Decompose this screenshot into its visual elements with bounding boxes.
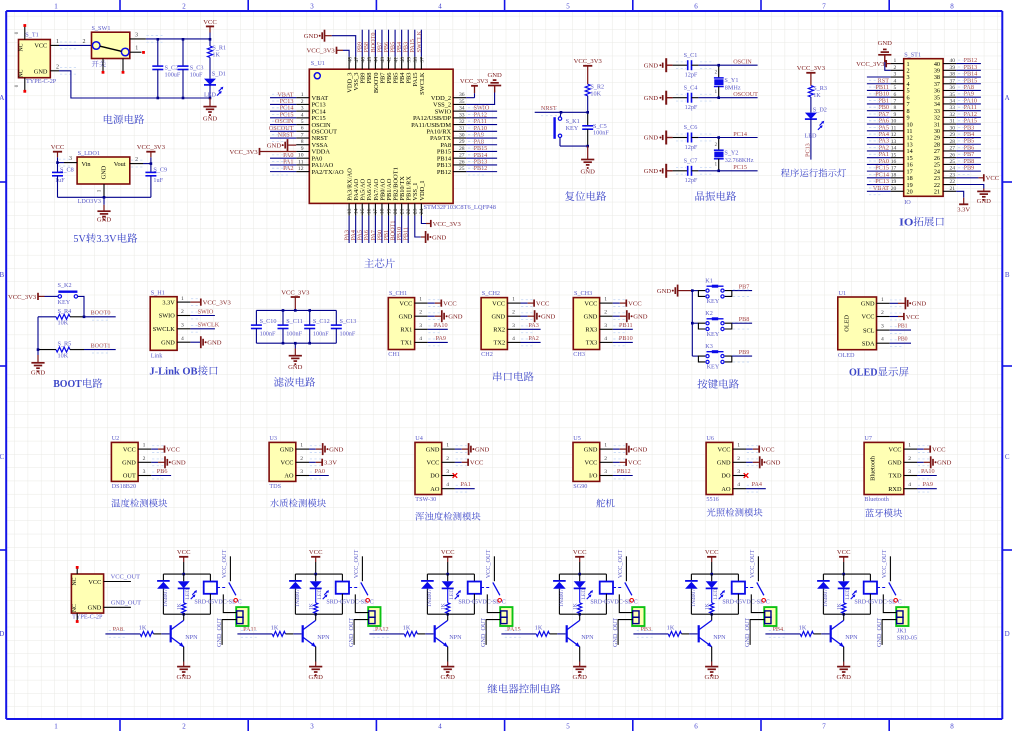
svg-text:4: 4 bbox=[604, 336, 607, 342]
svg-text:VCC: VCC bbox=[399, 300, 412, 307]
svg-text:OLED: OLED bbox=[844, 314, 851, 331]
svg-text:40: 40 bbox=[400, 57, 406, 63]
relay LED PA15 bbox=[574, 574, 593, 600]
svg-text:31: 31 bbox=[459, 126, 465, 132]
svg-text:VCC: VCC bbox=[281, 460, 294, 467]
LDO GND bbox=[97, 197, 112, 223]
svg-text:29: 29 bbox=[950, 132, 956, 138]
svg-text:35: 35 bbox=[950, 92, 956, 98]
U1 pin 47 VSS_3 bbox=[353, 57, 360, 91]
svg-text:VCC: VCC bbox=[932, 447, 946, 454]
svg-text:A: A bbox=[1005, 94, 1010, 102]
relay LED PB4 bbox=[838, 574, 857, 600]
svg-text:2: 2 bbox=[604, 456, 607, 462]
ST1 pin 35 right bbox=[934, 91, 981, 102]
svg-text:S_C6: S_C6 bbox=[684, 124, 698, 131]
svg-text:GND_OUT: GND_OUT bbox=[876, 618, 883, 647]
svg-text:GND: GND bbox=[203, 115, 218, 122]
T1 pin 2 wire GND rail bbox=[50, 65, 210, 99]
svg-text:37: 37 bbox=[950, 78, 956, 84]
svg-text:1K: 1K bbox=[573, 603, 579, 610]
svg-text:SWCLK: SWCLK bbox=[153, 326, 175, 333]
svg-text:SRD-05VDC-SL-C: SRD-05VDC-SL-C bbox=[590, 599, 637, 605]
svg-text:VCC: VCC bbox=[166, 447, 180, 454]
U1 pin 27 PB14 bbox=[437, 152, 497, 163]
svg-text:VCC: VCC bbox=[309, 549, 323, 556]
svg-text:PB12: PB12 bbox=[617, 468, 631, 475]
LED S_D1 bbox=[204, 71, 226, 99]
VCC_3V3 power BOOT bbox=[8, 293, 58, 301]
svg-text:5V: 5V bbox=[73, 234, 86, 245]
svg-text:S_CH1: S_CH1 bbox=[389, 290, 407, 297]
svg-text:34: 34 bbox=[459, 106, 465, 112]
capacitor S_C10 100nF bbox=[251, 310, 277, 343]
LDO S_LDO1 bbox=[77, 150, 130, 205]
svg-text:8: 8 bbox=[950, 723, 954, 731]
svg-text:S_C11: S_C11 bbox=[286, 318, 303, 325]
LDO pin 3 wire bbox=[58, 156, 78, 166]
svg-text:10uF: 10uF bbox=[190, 72, 203, 79]
svg-text:1K: 1K bbox=[309, 603, 315, 610]
relay resistor 1K PA8 bbox=[177, 588, 186, 614]
transistor NPN PA8 bbox=[171, 614, 198, 661]
svg-text:7: 7 bbox=[301, 132, 304, 138]
ST1 pin 2 left bbox=[891, 65, 910, 75]
U1 pin 5 OSCIN bbox=[270, 118, 331, 129]
svg-text:GND: GND bbox=[573, 674, 588, 681]
svg-text:39: 39 bbox=[406, 57, 412, 63]
ST1 pin 1 left bbox=[891, 58, 910, 68]
svg-text:S_R1: S_R1 bbox=[212, 44, 226, 51]
svg-text:PA2/TX/AO: PA2/TX/AO bbox=[312, 169, 344, 176]
svg-text:Vin: Vin bbox=[82, 161, 92, 168]
svg-text:23: 23 bbox=[413, 208, 419, 214]
title filter circuit bbox=[274, 377, 315, 387]
power circuit GND bbox=[203, 98, 218, 122]
U1 pin 31 PA10/RX bbox=[426, 125, 497, 136]
svg-text:GND: GND bbox=[177, 674, 192, 681]
svg-text:TXD: TXD bbox=[889, 473, 902, 480]
svg-text:GND: GND bbox=[280, 446, 294, 453]
svg-text:3: 3 bbox=[300, 469, 303, 475]
svg-text:U3: U3 bbox=[269, 435, 277, 442]
svg-text:2: 2 bbox=[604, 310, 607, 316]
resistor S_R1 1K bbox=[208, 39, 227, 78]
svg-text:28: 28 bbox=[950, 139, 956, 145]
svg-text:KEY: KEY bbox=[707, 298, 720, 305]
relay GND PA12 bbox=[441, 662, 456, 681]
svg-text:RX1: RX1 bbox=[400, 327, 412, 334]
ST1 pin 24 right bbox=[934, 165, 981, 176]
svg-text:1K: 1K bbox=[799, 624, 807, 631]
title keys circuit bbox=[698, 379, 739, 389]
H1 pin 2 SWIO bbox=[177, 308, 215, 319]
svg-text:VCC_3V3: VCC_3V3 bbox=[306, 48, 335, 55]
flyback diode 1N4007 PA15 bbox=[553, 574, 566, 614]
svg-text:12pF: 12pF bbox=[685, 72, 698, 79]
svg-text:VCC_3V3: VCC_3V3 bbox=[137, 144, 166, 151]
svg-text:NRST: NRST bbox=[278, 132, 294, 139]
relay GND PA8 bbox=[177, 662, 192, 681]
svg-text:8: 8 bbox=[950, 2, 954, 10]
svg-text:23: 23 bbox=[950, 172, 956, 178]
T1 pin 1 wire to switch bbox=[50, 39, 92, 49]
LED S_D2 bbox=[805, 106, 827, 139]
flyback diode 1N4007 PB4 bbox=[817, 574, 830, 614]
svg-text:GND: GND bbox=[644, 135, 659, 142]
svg-text:GND: GND bbox=[448, 314, 463, 321]
svg-text:LED: LED bbox=[317, 589, 323, 600]
svg-text:38: 38 bbox=[413, 57, 419, 63]
svg-text:GND: GND bbox=[487, 72, 502, 79]
U1 pin 3 PC14 bbox=[270, 105, 327, 116]
U1 pin 36 VCC_3V3 wire bbox=[460, 78, 489, 98]
U1 pin 35 GND wire bbox=[466, 72, 502, 105]
serial module S_CH2 bbox=[481, 290, 555, 358]
ST1 pin 40 right bbox=[934, 57, 981, 68]
svg-text:21: 21 bbox=[399, 208, 405, 214]
svg-text:GND: GND bbox=[644, 168, 659, 175]
svg-text:PC13: PC13 bbox=[804, 143, 811, 157]
relay switch contacts PB3 bbox=[745, 550, 766, 603]
svg-text:PB10: PB10 bbox=[619, 335, 633, 342]
relay LED PA8 bbox=[178, 574, 197, 600]
IO port S_ST1 body bbox=[904, 51, 943, 206]
svg-text:3: 3 bbox=[737, 469, 740, 475]
base resistor 1K input PA15 bbox=[501, 624, 565, 637]
relay output terminal PA8 bbox=[236, 607, 248, 626]
svg-text:B: B bbox=[1005, 271, 1010, 279]
svg-text:27: 27 bbox=[950, 146, 956, 152]
svg-text:VCC: VCC bbox=[123, 446, 136, 453]
ST1 pin 8 left bbox=[867, 104, 910, 115]
ST1 pin 32 right bbox=[934, 111, 981, 122]
svg-text:VCC: VCC bbox=[584, 300, 597, 307]
U1 pin 28 PB15 bbox=[437, 145, 497, 156]
svg-text:3: 3 bbox=[310, 723, 314, 731]
relay top rail PA12 bbox=[427, 573, 474, 575]
relay GND PB4 bbox=[837, 662, 852, 681]
svg-text:NC: NC bbox=[18, 69, 24, 77]
U1 pin 1 VBAT bbox=[270, 91, 328, 102]
svg-text:1: 1 bbox=[135, 46, 138, 52]
module U7 Bluetooth bbox=[864, 435, 952, 503]
svg-text:SRD-05VDC-SL-C: SRD-05VDC-SL-C bbox=[326, 599, 373, 605]
svg-text:12pF: 12pF bbox=[685, 104, 698, 111]
svg-text:PC15: PC15 bbox=[733, 164, 747, 171]
svg-text:21: 21 bbox=[950, 186, 956, 192]
svg-text:VCC: VCC bbox=[705, 549, 719, 556]
svg-text:AO: AO bbox=[430, 486, 440, 493]
svg-text:D: D bbox=[1005, 630, 1010, 638]
ST1 pin 29 right bbox=[934, 131, 981, 142]
U1 pin 35 VSS_2 bbox=[433, 99, 466, 109]
svg-text:3: 3 bbox=[604, 323, 607, 329]
svg-text:RX2: RX2 bbox=[493, 327, 505, 334]
svg-text:S_Y1: S_Y1 bbox=[724, 77, 738, 84]
svg-text:KEY: KEY bbox=[707, 331, 720, 338]
U1 pin 18 PB0/AO bbox=[376, 178, 386, 243]
svg-text:GND: GND bbox=[399, 313, 413, 320]
svg-text:8MHz: 8MHz bbox=[725, 84, 741, 91]
svg-text:PB0: PB0 bbox=[898, 337, 908, 343]
svg-text:VCC_OUT: VCC_OUT bbox=[221, 550, 228, 579]
svg-text:PB3: PB3 bbox=[640, 626, 651, 633]
terminal lower wire GND_OUT PB4 bbox=[876, 618, 897, 647]
svg-text:2: 2 bbox=[881, 310, 884, 316]
svg-text:2: 2 bbox=[182, 2, 186, 10]
svg-text:5: 5 bbox=[566, 2, 570, 10]
svg-text:U7: U7 bbox=[864, 435, 872, 442]
ST1 pin 31 right bbox=[934, 118, 981, 129]
svg-text:VCC: VCC bbox=[573, 549, 587, 556]
svg-text:4: 4 bbox=[737, 482, 740, 488]
svg-text:Vout: Vout bbox=[114, 161, 126, 168]
svg-text:GND: GND bbox=[122, 460, 136, 467]
svg-text:NPN: NPN bbox=[317, 634, 330, 641]
svg-text:10K: 10K bbox=[58, 352, 69, 359]
VCC_3V3 power filter bbox=[281, 289, 310, 310]
svg-text:38: 38 bbox=[950, 72, 956, 78]
svg-text:2: 2 bbox=[56, 65, 59, 71]
svg-text:4: 4 bbox=[881, 337, 884, 343]
svg-text:VCC: VCC bbox=[536, 301, 550, 308]
relay coil PA8 bbox=[204, 574, 217, 614]
svg-text:S_C2: S_C2 bbox=[165, 64, 179, 71]
relay top rail PA11 bbox=[295, 573, 342, 575]
svg-text:1K: 1K bbox=[705, 603, 711, 610]
svg-text:PA2: PA2 bbox=[528, 335, 538, 342]
svg-text:1N4007: 1N4007 bbox=[691, 589, 697, 607]
flyback diode 1N4007 PB3 bbox=[685, 574, 698, 614]
relay coil PB3 bbox=[732, 574, 745, 614]
svg-text:PB6: PB6 bbox=[157, 468, 168, 475]
svg-text:SRD-05VDC-SL-C: SRD-05VDC-SL-C bbox=[854, 599, 901, 605]
svg-text:PA10: PA10 bbox=[434, 322, 448, 329]
svg-text:GND: GND bbox=[267, 143, 282, 150]
svg-text:SDA: SDA bbox=[862, 340, 875, 347]
svg-text:VCC: VCC bbox=[492, 300, 505, 307]
U1 pin 29 PA8 bbox=[440, 138, 497, 149]
svg-text:VCC: VCC bbox=[889, 446, 902, 453]
U1 pin 44 BOOT0 bbox=[370, 30, 380, 93]
U1 pin 14 PA4/AO bbox=[350, 178, 360, 243]
svg-text:Link: Link bbox=[151, 352, 164, 359]
svg-text:43: 43 bbox=[380, 57, 386, 63]
svg-text:LED: LED bbox=[713, 589, 719, 600]
svg-text:PA9: PA9 bbox=[436, 335, 446, 342]
svg-text:GND_OUT: GND_OUT bbox=[612, 618, 619, 647]
svg-text:3: 3 bbox=[881, 324, 884, 330]
relay output terminal PB4 bbox=[896, 607, 908, 626]
transistor NPN PB3 bbox=[699, 614, 726, 661]
relay top rail PA8 bbox=[163, 573, 210, 575]
svg-text:VCC: VCC bbox=[986, 175, 1000, 182]
label SRD-05VDC-SL-C PA11 bbox=[326, 599, 373, 605]
svg-text:PA8: PA8 bbox=[113, 626, 123, 633]
svg-text:5516: 5516 bbox=[706, 496, 718, 503]
svg-text:48: 48 bbox=[347, 57, 353, 63]
VCC power port LDO input bbox=[51, 144, 65, 162]
svg-text:1: 1 bbox=[419, 297, 422, 303]
svg-text:GND_OUT: GND_OUT bbox=[480, 618, 487, 647]
svg-text:PA11: PA11 bbox=[243, 626, 256, 633]
svg-text:39: 39 bbox=[950, 65, 956, 71]
terminal upper wire PA12 bbox=[487, 594, 500, 612]
svg-text:VCC_OUT: VCC_OUT bbox=[881, 550, 888, 579]
ST1 pin 4 left bbox=[867, 77, 910, 88]
svg-text:VCC: VCC bbox=[584, 460, 597, 467]
svg-text:LED: LED bbox=[449, 589, 455, 600]
svg-text:1: 1 bbox=[300, 443, 303, 449]
svg-text:GND: GND bbox=[644, 62, 659, 69]
svg-text:PB1: PB1 bbox=[898, 323, 908, 329]
svg-text:2: 2 bbox=[143, 456, 146, 462]
capacitor S_C7 12pF with GND bbox=[644, 158, 758, 185]
svg-text:GND_OUT: GND_OUT bbox=[111, 600, 141, 607]
U1 pin 26 PB13 bbox=[437, 159, 497, 170]
svg-text:2: 2 bbox=[512, 310, 515, 316]
svg-text:NC: NC bbox=[18, 43, 24, 51]
title OLED display bbox=[849, 367, 909, 379]
svg-text:SRD-05VDC-SL-C: SRD-05VDC-SL-C bbox=[722, 599, 769, 605]
svg-text:100nF: 100nF bbox=[340, 331, 356, 338]
svg-text:24: 24 bbox=[419, 208, 425, 214]
base resistor 1K input PA12 bbox=[369, 624, 433, 637]
ST1 pin 18 left bbox=[867, 171, 913, 182]
svg-text:VCC_3V3: VCC_3V3 bbox=[281, 289, 310, 296]
svg-text:1: 1 bbox=[54, 723, 58, 731]
net label GND_OUT T2 bbox=[104, 600, 142, 608]
title temperature module bbox=[111, 499, 167, 508]
relay resistor 1K PA12 bbox=[441, 588, 450, 614]
svg-text:13: 13 bbox=[347, 208, 353, 214]
relay top rail PA15 bbox=[559, 573, 606, 575]
module U5 SG90 bbox=[573, 435, 648, 490]
SW1 bottom stubs bbox=[102, 59, 125, 74]
svg-text:KEY: KEY bbox=[58, 299, 71, 306]
svg-text:VCC_3V3: VCC_3V3 bbox=[229, 149, 258, 156]
relay output terminal PA15 bbox=[632, 607, 644, 626]
capacitor S_C6 12pF with GND bbox=[644, 124, 758, 151]
crystal S_Y1 8MHz bbox=[714, 64, 741, 99]
svg-text:PB11: PB11 bbox=[403, 227, 410, 241]
svg-text:Bluetooth: Bluetooth bbox=[870, 455, 877, 481]
svg-text:U6: U6 bbox=[706, 435, 714, 442]
U1 pin 16 PA6/AO bbox=[363, 178, 373, 243]
svg-text:15: 15 bbox=[360, 208, 366, 214]
relay switch contacts PA12 bbox=[481, 550, 502, 603]
svg-text:2: 2 bbox=[83, 39, 86, 45]
svg-text:IO: IO bbox=[899, 217, 913, 228]
ST1 pin 22 GND bbox=[956, 185, 991, 205]
relay GND PB3 bbox=[705, 662, 720, 681]
net label BOOT0 bbox=[84, 310, 116, 321]
svg-text:4: 4 bbox=[419, 336, 422, 342]
svg-text:VCC_OUT: VCC_OUT bbox=[617, 550, 624, 579]
connector T2 TYPE-C-2P bbox=[71, 566, 103, 623]
OLED pin 2 VCC bbox=[862, 310, 920, 321]
relay bottom rail PA12 bbox=[427, 573, 474, 616]
svg-text:3.3V: 3.3V bbox=[324, 460, 337, 467]
terminal lower wire GND_OUT PA8 bbox=[216, 618, 237, 647]
svg-text:GND: GND bbox=[912, 301, 927, 308]
svg-text:6: 6 bbox=[301, 126, 304, 132]
svg-text:9: 9 bbox=[894, 112, 897, 118]
svg-text:S_H1: S_H1 bbox=[151, 290, 165, 297]
base resistor 1K input PB4 bbox=[765, 624, 829, 637]
ST1 pin 21 right bbox=[934, 186, 956, 196]
svg-text:1: 1 bbox=[737, 443, 740, 449]
relay GND PA11 bbox=[309, 662, 324, 681]
svg-text:19: 19 bbox=[386, 208, 392, 214]
ST1 pin 39 right bbox=[934, 64, 981, 75]
flyback diode 1N4007 PA8 bbox=[157, 574, 170, 614]
svg-text:GND: GND bbox=[584, 446, 598, 453]
svg-text:GND: GND bbox=[432, 234, 447, 241]
U1 pin 8 VSSA bbox=[296, 139, 328, 149]
svg-text:VCC: VCC bbox=[761, 447, 775, 454]
svg-text:2: 2 bbox=[908, 456, 911, 462]
title turbidity module bbox=[415, 512, 480, 521]
crystal S_Y2 32.768KHz bbox=[714, 136, 754, 172]
svg-text:1K: 1K bbox=[139, 624, 147, 631]
svg-text:12pF: 12pF bbox=[685, 177, 698, 184]
svg-text:VCC: VCC bbox=[628, 460, 642, 467]
svg-text:1K: 1K bbox=[212, 51, 220, 58]
svg-text:1: 1 bbox=[54, 2, 58, 10]
svg-text:K2: K2 bbox=[705, 310, 713, 317]
terminal upper wire PB3 bbox=[751, 594, 764, 612]
reset GND bbox=[581, 146, 596, 176]
OLED pin 4 SDA bbox=[862, 337, 911, 348]
capacitor S_C11 100nF bbox=[278, 310, 303, 343]
svg-text:21: 21 bbox=[934, 188, 940, 195]
svg-text:IO: IO bbox=[904, 199, 911, 206]
push button S_K1 KEY bbox=[555, 112, 588, 146]
svg-text:S_C3: S_C3 bbox=[190, 64, 204, 71]
U1 pin 23 GND wire bbox=[415, 216, 447, 243]
svg-text:LED: LED bbox=[581, 589, 587, 600]
svg-text:GND: GND bbox=[766, 460, 781, 467]
label SRD-05VDC-SL-C PA15 bbox=[590, 599, 637, 605]
svg-text:1: 1 bbox=[97, 189, 103, 192]
BOOT GND bbox=[31, 355, 46, 376]
relay switch contacts PA8 bbox=[217, 550, 238, 603]
svg-text:1: 1 bbox=[446, 443, 449, 449]
svg-text:VCC_OUT: VCC_OUT bbox=[111, 574, 141, 581]
svg-text:3.3V: 3.3V bbox=[96, 234, 117, 245]
svg-text:4: 4 bbox=[438, 723, 442, 731]
svg-text:TDS: TDS bbox=[269, 483, 281, 490]
svg-text:12: 12 bbox=[298, 166, 304, 172]
net label NRST wire bbox=[535, 105, 588, 116]
svg-text:GND: GND bbox=[207, 340, 222, 347]
svg-text:Bluetooth: Bluetooth bbox=[864, 496, 889, 503]
svg-text:VCC: VCC bbox=[203, 19, 217, 26]
svg-text:PB12: PB12 bbox=[474, 165, 488, 172]
label JK1 PB4 bbox=[897, 627, 907, 634]
svg-text:5: 5 bbox=[894, 85, 897, 91]
svg-text:VCC: VCC bbox=[718, 446, 731, 453]
svg-text:S_Y2: S_Y2 bbox=[724, 150, 738, 157]
svg-text:NC: NC bbox=[72, 604, 78, 612]
ST1 pin 27 right bbox=[934, 144, 981, 155]
svg-text:SWIO: SWIO bbox=[159, 313, 176, 320]
svg-text:1: 1 bbox=[143, 443, 146, 449]
flyback diode 1N4007 PA12 bbox=[421, 574, 434, 614]
svg-text:S_C1: S_C1 bbox=[684, 52, 698, 59]
